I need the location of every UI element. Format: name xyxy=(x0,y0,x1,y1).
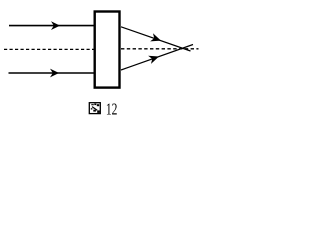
bottom refracted ray wire xyxy=(121,45,193,71)
top incident ray wire xyxy=(9,25,94,27)
top refracted ray wire xyxy=(121,27,191,51)
top incident ray arrowhead xyxy=(51,21,60,30)
optical axis right dashed segment xyxy=(121,48,199,50)
bottom incident ray arrowhead xyxy=(50,69,59,78)
svg-text:1: 1 xyxy=(106,101,112,120)
optical axis left dashed segment xyxy=(4,48,94,50)
svg-text:2: 2 xyxy=(112,101,118,120)
bottom refracted ray arrowhead xyxy=(148,52,160,63)
glass block rectangle xyxy=(95,12,120,88)
top refracted ray arrowhead xyxy=(150,33,162,44)
bottom incident ray wire xyxy=(9,72,95,74)
caption character 图 (drawn) xyxy=(89,103,100,114)
